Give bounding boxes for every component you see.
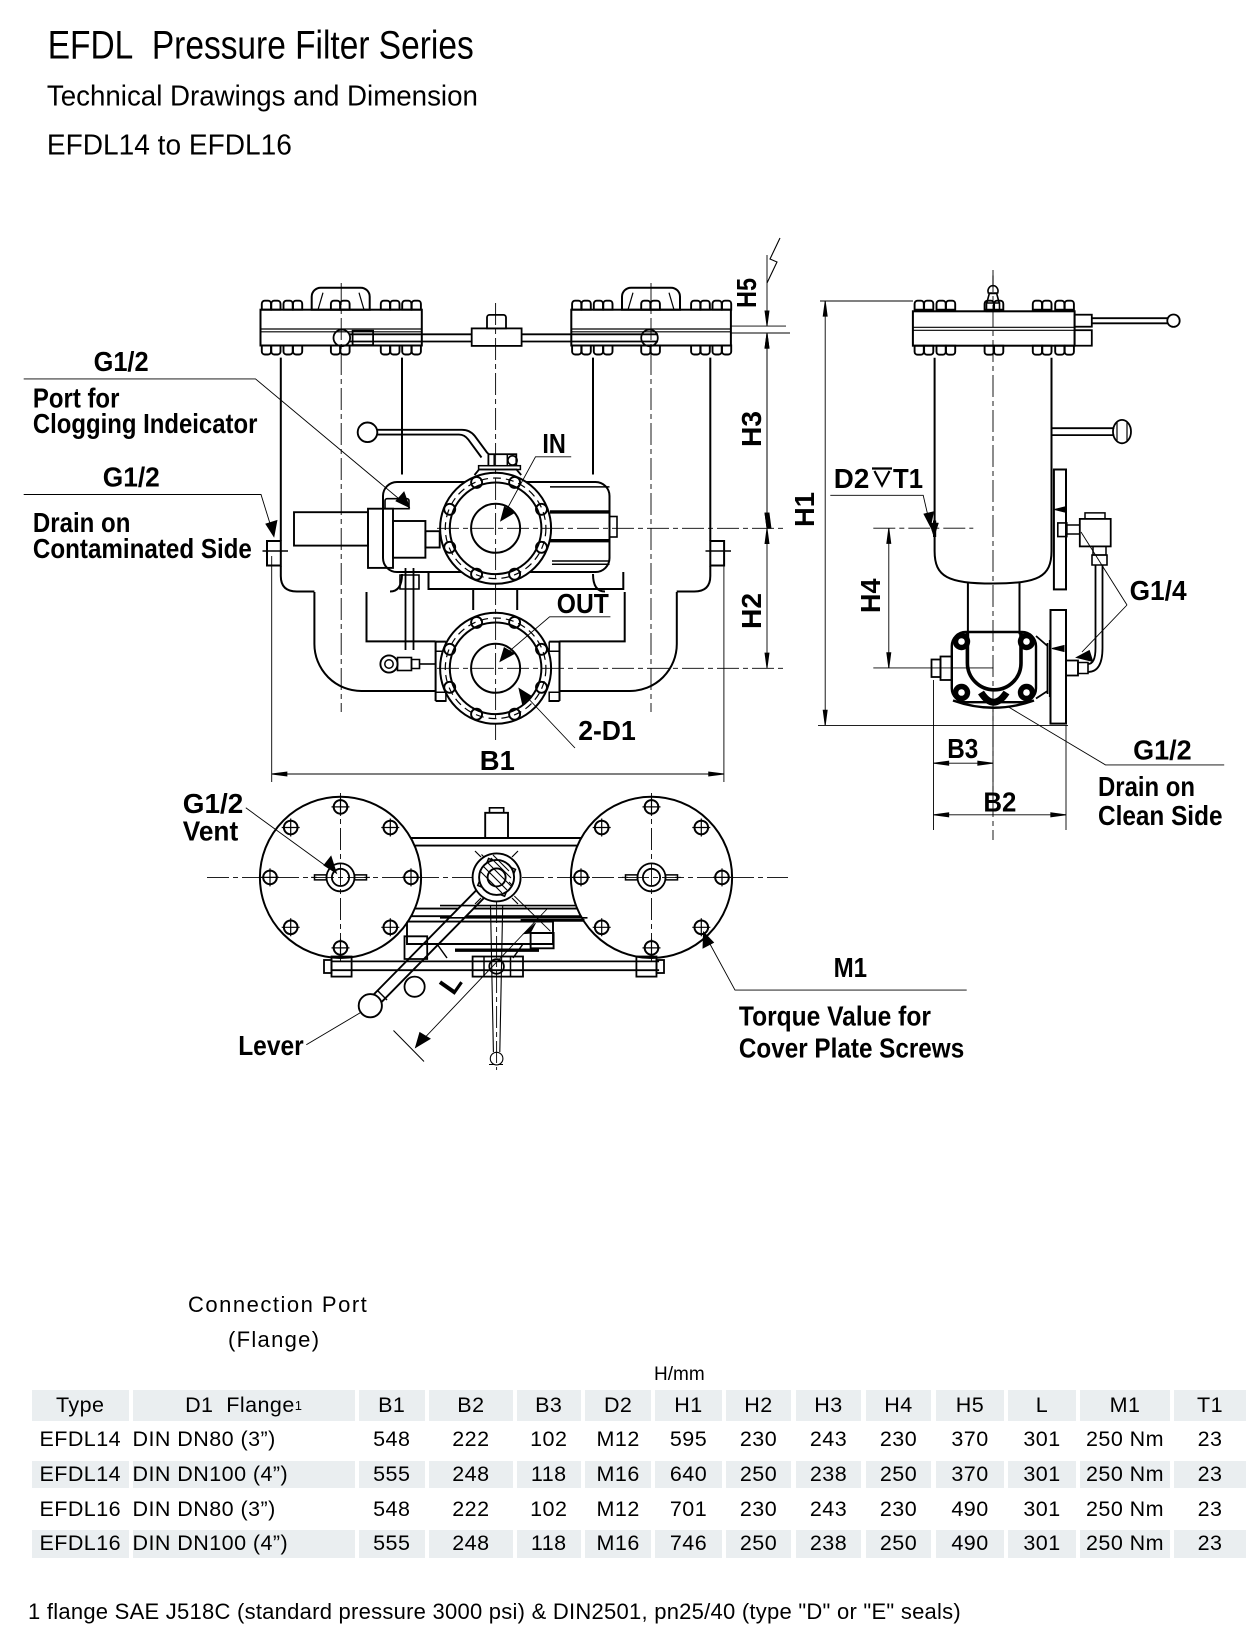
svg-text:G1/4: G1/4 [1130,575,1187,606]
svg-text:B1: B1 [480,745,515,776]
svg-text:T1: T1 [893,463,923,494]
side: D2 wall tick [933,521,936,538]
front: IN flange [440,473,551,584]
bottom: under-valve bracket [405,906,588,997]
bottom: center lines [207,793,788,962]
drain boss (right) [710,541,724,566]
svg-text:IN: IN [542,428,566,459]
dimension H1 [818,301,1068,725]
bottom: lever diagonal [359,874,501,1018]
DRAWING SVG [0,0,1250,1250]
svg-text:G1/2: G1/2 [183,788,244,819]
bottom: top stub [485,808,508,838]
svg-text:H4: H4 [855,578,886,613]
side: fitting with rod right of flange [1075,315,1180,346]
svg-text:Clean Side: Clean Side [1098,800,1223,831]
front: bottom housing [314,592,676,691]
svg-text:Vent: Vent [183,816,238,847]
front: clogging indicator fitting [294,499,440,673]
svg-text:Lever: Lever [238,1030,304,1061]
svg-text:H1: H1 [789,492,820,527]
svg-text:EFDL14 to EFDL16: EFDL14 to EFDL16 [47,130,292,162]
svg-text:Contaminated Side: Contaminated Side [33,533,252,564]
svg-text:G1/2: G1/2 [94,346,149,377]
front: ball valve lever and stem [358,423,522,476]
dimension H2 [765,528,769,668]
front: changeover rod and center tee [334,315,658,346]
svg-text:M1: M1 [834,952,868,983]
side: handle knob right [1052,420,1132,443]
side: bottom elbow [932,632,1050,708]
drain boss contaminated side (left) [267,541,281,566]
side: mounting plates [1051,470,1067,724]
svg-text:Torque Value for: Torque Value for [739,1000,931,1031]
footnote [28,1599,961,1625]
svg-text:L: L [433,968,468,1000]
svg-text:H2: H2 [736,593,767,629]
dimension B3 [934,680,994,800]
front: manifold body [383,482,623,610]
bottom: central valve [473,851,521,904]
svg-text:Drain on: Drain on [1098,771,1195,802]
svg-text:G1/2: G1/2 [103,461,160,492]
svg-text:D2: D2 [834,463,870,494]
svg-text:H5: H5 [731,278,762,308]
svg-text:EFDL Pressure Filter Series: EFDL Pressure Filter Series [48,23,474,67]
lifting lug [312,288,370,310]
svg-text:OUT: OUT [557,588,609,619]
drain tube down to OUT [406,568,414,650]
bottom: lever alternate vertical position [489,901,503,1070]
svg-text:B2: B2 [983,786,1016,817]
side: center line vertical [992,270,994,840]
svg-text:G1/2: G1/2 [1133,735,1192,766]
vent poppet on top [987,303,1000,311]
dimension H3 [765,333,771,528]
side: flange assembly [913,276,1075,355]
drain plug left of elbow [941,657,952,681]
side: G1/4 drain fitting and tube [1058,513,1111,676]
dimension H5 with break line [731,238,790,528]
bottom: left cover plate [260,797,421,958]
dimension B2 [934,725,1067,830]
dimension L [394,896,551,1062]
front: right vessel [593,358,731,592]
svg-text:Cover Plate Screws: Cover Plate Screws [739,1032,964,1063]
svg-text:B3: B3 [947,733,978,764]
front: left flange assembly [261,288,422,355]
side: vessel body [935,358,1052,635]
front: center lines [341,283,786,740]
front: OUT flange with square plate [436,613,560,724]
svg-text:Technical Drawings and Dimensi: Technical Drawings and Dimension [47,80,478,112]
svg-text:H3: H3 [736,411,767,447]
side: horizontal center mark at D2 level [873,527,993,529]
front: right flange assembly [571,288,731,355]
svg-text:2-D1: 2-D1 [578,715,636,746]
bottom: right cover plate [571,797,732,958]
dimension H4 [873,528,993,668]
center vent plug [332,869,349,886]
bottom: body lines between plates [411,838,581,916]
front: left vessel [263,358,403,592]
bottom: linkage bar [324,957,664,977]
svg-text:Clogging Indeicator: Clogging Indeicator [33,408,258,439]
dimension B1 [272,556,724,782]
